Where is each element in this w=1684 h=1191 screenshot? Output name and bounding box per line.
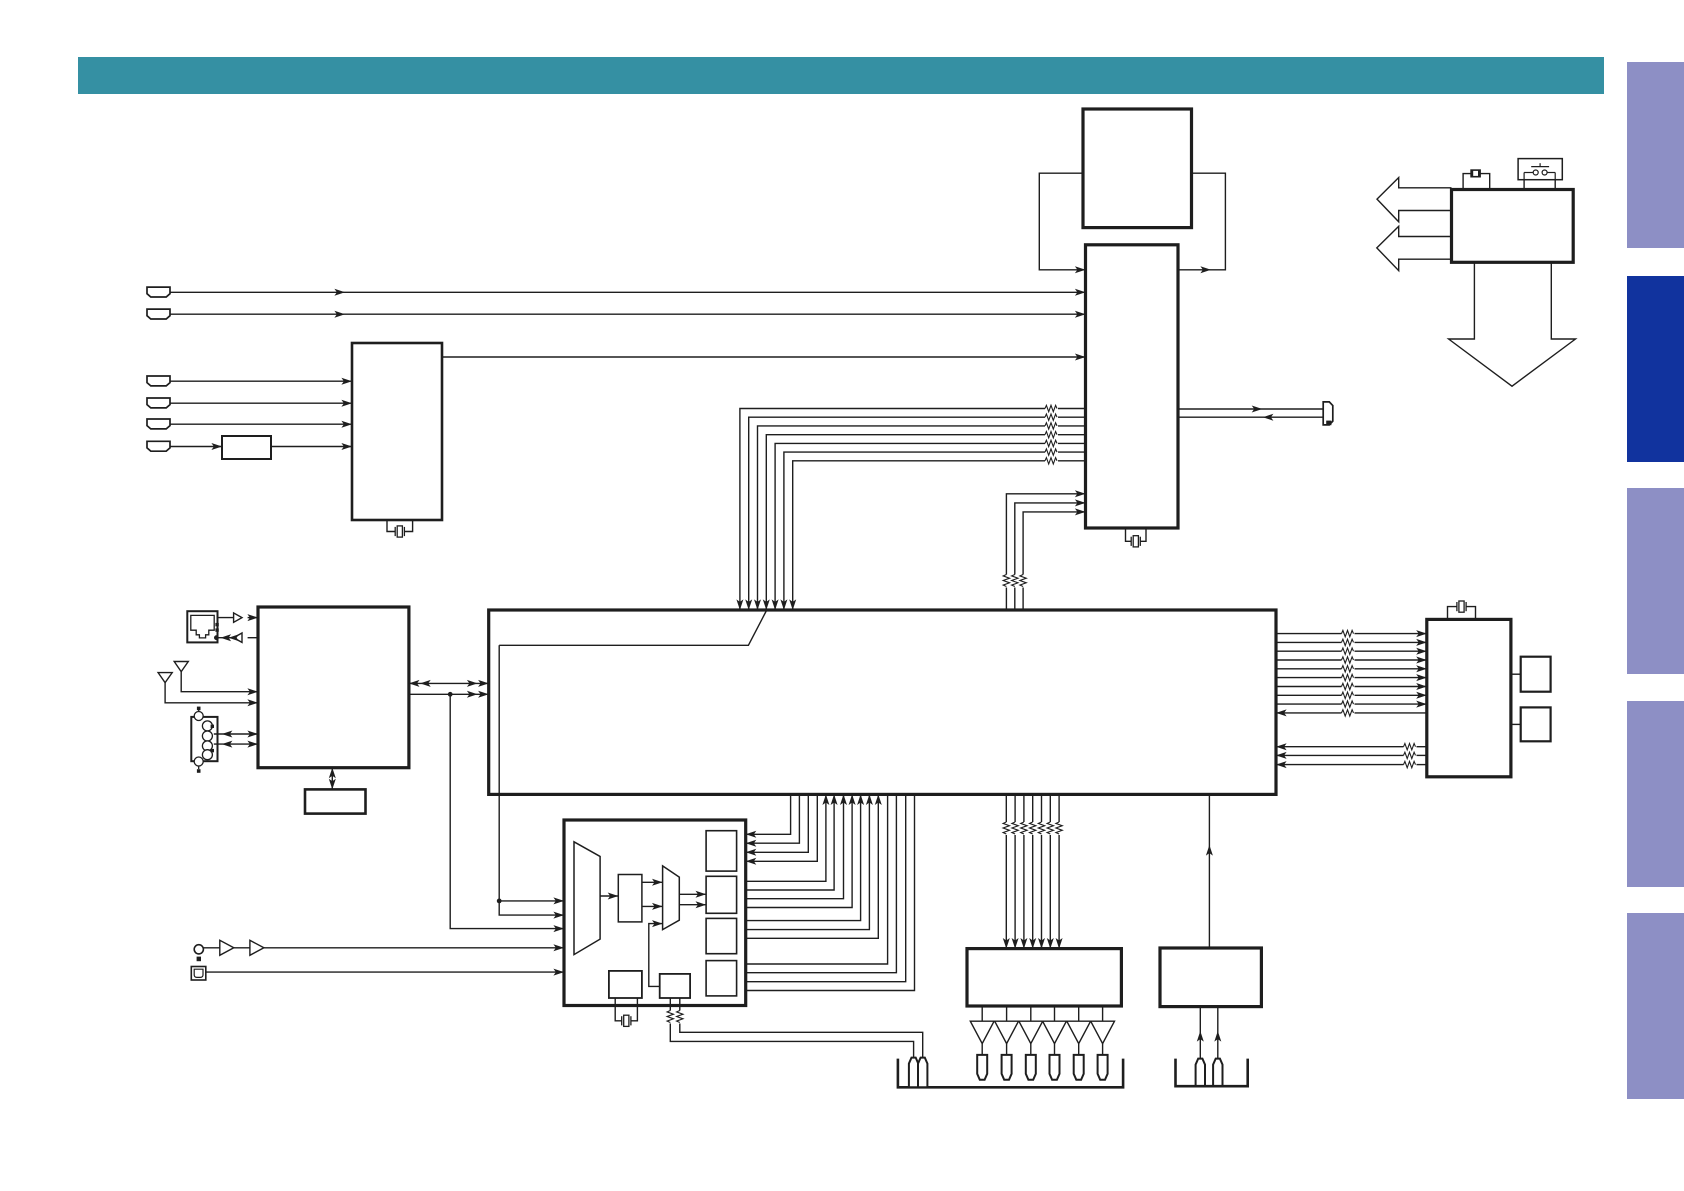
connector tab J1 xyxy=(147,287,170,297)
block: power amplifier xyxy=(967,949,1121,1006)
wire tap down to audio DSP xyxy=(450,694,564,932)
connector: remote jack (right tab) xyxy=(1323,402,1333,425)
connector tab J2 xyxy=(147,309,170,319)
buffer amp U21 xyxy=(250,940,264,955)
crystal X2 under front CPU xyxy=(1126,528,1147,547)
connector tab J5 xyxy=(147,419,170,429)
block: DAC (DSP right 2) xyxy=(706,876,737,913)
microphone jack MIC xyxy=(194,945,203,961)
wire muxB to DAC2 b xyxy=(679,901,706,908)
speaker terminal bracket xyxy=(898,1059,1123,1088)
block: SRC (inside DSP) xyxy=(618,875,642,922)
connector tab J4 xyxy=(147,398,170,408)
block: network module xyxy=(258,607,409,768)
connector: ethernet jack xyxy=(187,611,217,642)
wire J2 to front CPU xyxy=(170,311,1086,318)
DSP line-out resistors to phones jack xyxy=(667,998,923,1059)
wire network to eth xyxy=(214,634,258,641)
block: standby power supply (right of amp) xyxy=(1160,948,1261,1007)
wire network to SoC line2 xyxy=(409,691,489,698)
block: ADC (DSP right 3) xyxy=(706,918,737,953)
buffer amp U10 (eth tx) xyxy=(234,613,242,622)
inner partition of main SoC xyxy=(499,611,766,795)
loop wire around display block xyxy=(1039,173,1225,273)
AC switch SW1 box xyxy=(1518,159,1562,190)
pads on ethernet jack xyxy=(215,623,218,632)
bus: SoC to DSP digital in (4 lines) xyxy=(746,794,818,864)
speaker output drivers and terminals xyxy=(970,1006,1114,1080)
wire terminal to network a xyxy=(214,731,258,738)
bus: front CPU to main SoC (7 lines with beads) xyxy=(736,405,1085,610)
block: main SoC (large center) xyxy=(489,610,1276,794)
wire ANT1 to network xyxy=(181,672,258,696)
wire front CPU to remote jack xyxy=(1178,406,1323,413)
wire interface box to selector xyxy=(271,443,352,450)
wire network to SoC (bidir) xyxy=(409,680,489,687)
block: AMP IF (DSP right 4) xyxy=(706,961,737,996)
antenna ANT2 xyxy=(158,673,172,683)
wire OSC feedback to muxB xyxy=(649,920,663,986)
standby terminal pins xyxy=(1196,1059,1223,1087)
sidebar tab blocks xyxy=(1627,62,1684,1099)
outline arrow DC down xyxy=(1449,262,1576,386)
block: power supply xyxy=(1452,190,1574,263)
crystal X3 on HDMI block top xyxy=(1448,601,1476,619)
fuse F1 loop on power supply xyxy=(1463,169,1490,189)
crystal X1 under selector block xyxy=(387,520,413,537)
wire selector to front CPU xyxy=(442,354,1086,361)
wire HDMI to aux1 xyxy=(1511,673,1521,675)
block: memory under network module xyxy=(305,789,366,813)
connector tab J6 xyxy=(147,441,170,451)
block: function/input selector (top-left) xyxy=(352,343,442,520)
standby supply output wires xyxy=(1197,1007,1222,1059)
wire J3 to selector xyxy=(170,378,352,385)
wire network to memory (bidir) xyxy=(329,768,336,790)
wire standby supply to SoC xyxy=(1206,794,1213,948)
block: audio DSP/DAC xyxy=(564,820,746,1006)
buffer amp U20 xyxy=(220,940,234,955)
wire J1 to front CPU xyxy=(170,289,1086,296)
mux A (input trapezoid) xyxy=(574,842,600,955)
wire muxB to DAC2 a xyxy=(679,891,706,898)
block: front panel CPU (tall) xyxy=(1086,245,1179,528)
phones terminal pins xyxy=(909,1058,928,1088)
teal header bar xyxy=(78,57,1604,94)
wire HDMI to aux2 xyxy=(1511,723,1521,725)
wire SRC to muxB 1 xyxy=(642,879,663,886)
wire muxA to SRC xyxy=(600,893,618,900)
crystal X4 under audio DSP xyxy=(615,998,637,1026)
wire mic to audio DSP xyxy=(203,944,564,951)
connector tab J3 xyxy=(147,376,170,386)
wire remote jack to front CPU xyxy=(1178,414,1323,421)
wire eth to network in xyxy=(218,614,259,621)
standby terminal bracket xyxy=(1176,1059,1248,1087)
bus: DSP amp-interface to SoC (4 lines) xyxy=(746,794,915,990)
wire J6 to interface box xyxy=(170,443,222,450)
connector: optical in xyxy=(191,967,206,981)
block: display (top square) xyxy=(1083,109,1192,228)
mux B (trapezoid) xyxy=(663,866,680,930)
outline arrow AC out 2 xyxy=(1377,226,1452,270)
wire ANT2 to network xyxy=(165,683,258,707)
bus: SoC to HDMI (10 lines with beads) xyxy=(1276,630,1427,716)
wire terminal to network b xyxy=(214,741,258,748)
antenna ANT1 xyxy=(174,662,188,672)
block: HDMI aux box 2 xyxy=(1521,707,1551,741)
block: small interface box xyxy=(222,436,271,459)
block: DIR (DSP right 1) xyxy=(706,831,737,871)
buffer amp U11 (eth rx) xyxy=(234,633,242,642)
wire J4 to selector xyxy=(170,400,352,407)
connector: AV terminal strip xyxy=(191,707,217,773)
bus: SoC to power amp (7 lines with beads) xyxy=(1003,794,1063,948)
bus: DSP ADC to SoC (3 lines) xyxy=(746,794,882,938)
block: HDMI receiver xyxy=(1427,619,1511,776)
bus: DSP DAC to SoC (4 lines) xyxy=(746,794,856,907)
bus: main SoC to front CPU (3 lines with beads) xyxy=(1003,490,1085,610)
outline arrow AC out 1 xyxy=(1377,178,1452,222)
block: HDMI aux box 1 xyxy=(1521,657,1551,692)
block: OSC (DSP bottom 2) xyxy=(660,974,690,998)
wire SRC to muxB 2 xyxy=(642,903,663,910)
wire SoC partition down to audio DSP xyxy=(497,794,564,918)
wire J5 to selector xyxy=(170,421,352,428)
bus: HDMI to SoC (3 lines with beads) xyxy=(1276,743,1427,768)
block: PLL (DSP bottom 1) xyxy=(609,971,642,998)
wire optical to audio DSP xyxy=(206,969,564,976)
